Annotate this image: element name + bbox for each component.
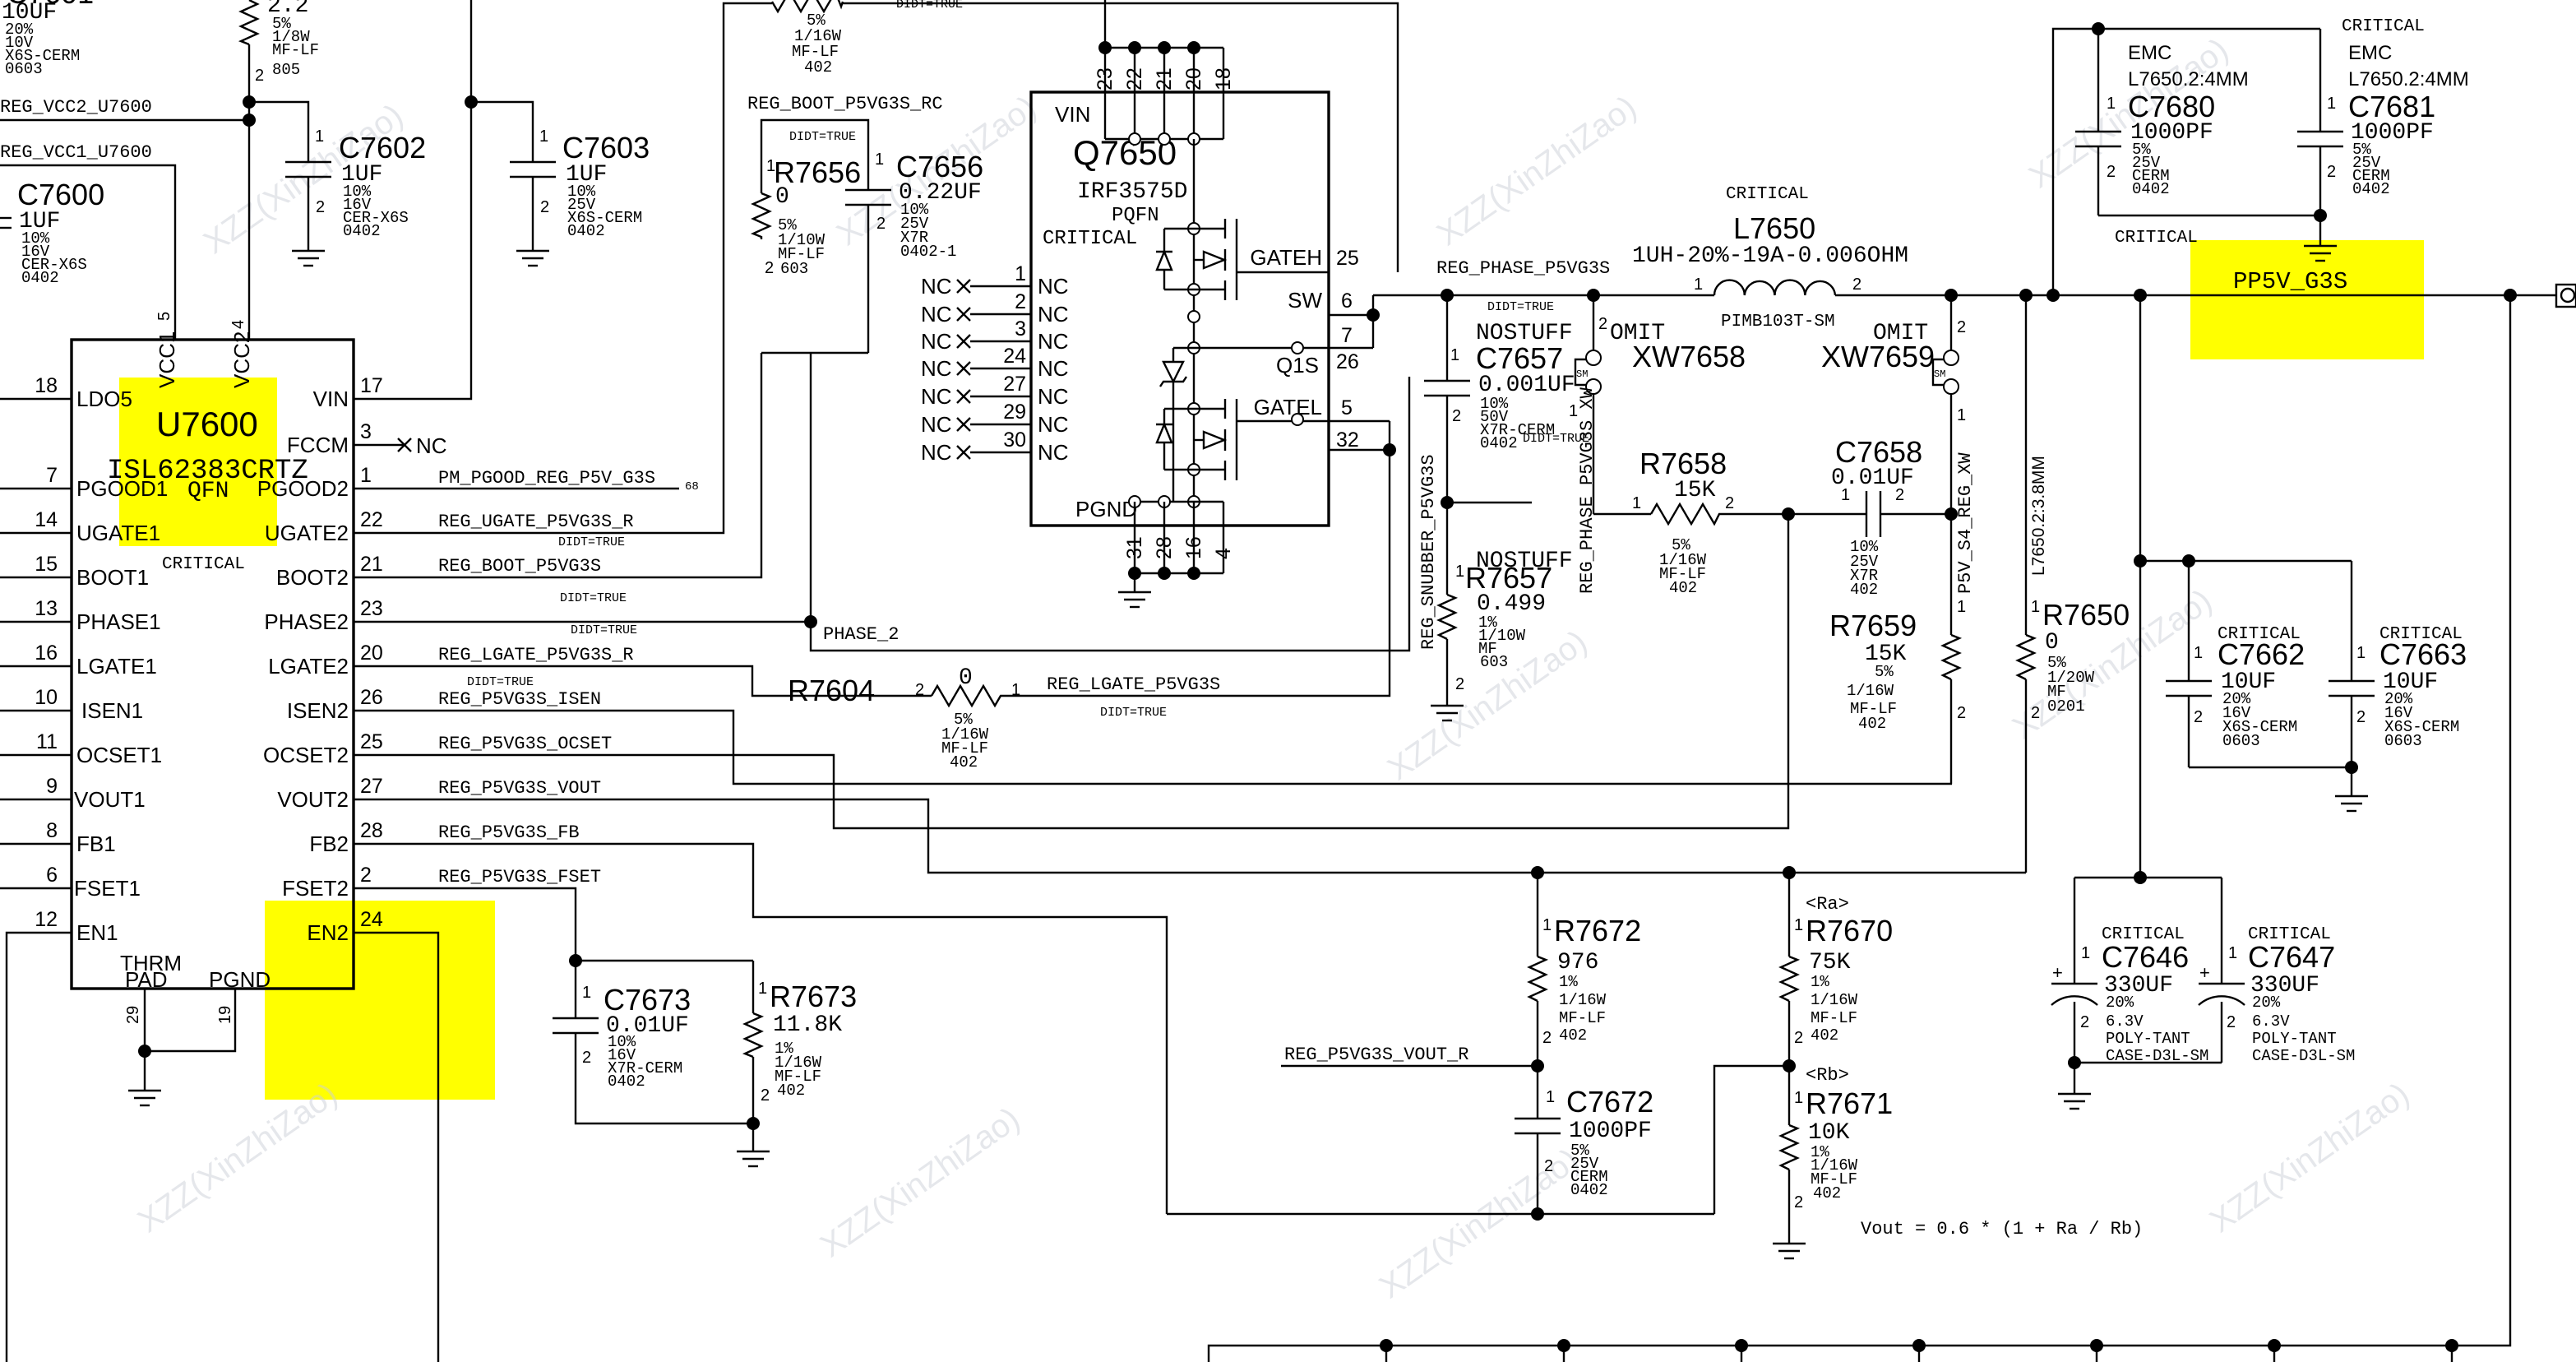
highlight yellow PP5V_G3S [2190, 240, 2424, 359]
svg-text:GATEL: GATEL [1254, 395, 1322, 419]
svg-text:0201: 0201 [2047, 697, 2085, 716]
svg-text:BOOT2: BOOT2 [276, 565, 349, 590]
svg-text:28: 28 [360, 819, 383, 842]
svg-text:603: 603 [1480, 653, 1508, 671]
svg-text:18: 18 [1212, 67, 1235, 90]
svg-text:2: 2 [1455, 675, 1464, 693]
svg-text:ISEN1: ISEN1 [81, 698, 143, 723]
svg-text:23: 23 [360, 597, 383, 620]
svg-text:402: 402 [1858, 715, 1886, 733]
svg-text:DIDT=TRUE: DIDT=TRUE [560, 591, 627, 605]
resistor R7604 [788, 665, 1020, 771]
svg-text:C7646: C7646 [2102, 940, 2189, 974]
svg-text:1: 1 [1794, 1089, 1803, 1107]
wire bottom bus rail [1209, 295, 2510, 1362]
svg-text:17: 17 [360, 374, 383, 397]
svg-text:1: 1 [1542, 916, 1552, 934]
svg-text:25: 25 [360, 730, 383, 753]
svg-text:U7600: U7600 [156, 405, 258, 443]
svg-text:REG_VCC2_U7600: REG_VCC2_U7600 [0, 97, 152, 118]
svg-text:30: 30 [1003, 429, 1026, 452]
svg-text:PGOOD2: PGOOD2 [257, 476, 349, 501]
svg-text:402: 402 [950, 753, 978, 771]
ground R7657 [1431, 706, 1464, 720]
svg-text:POLY-TANT: POLY-TANT [2106, 1030, 2190, 1048]
svg-text:0402: 0402 [1480, 434, 1518, 452]
svg-text:21: 21 [1153, 67, 1176, 90]
svg-text:0603: 0603 [2222, 732, 2260, 750]
svg-text:DIDT=TRUE: DIDT=TRUE [1100, 706, 1167, 720]
svg-text:REG_BOOT_P5VG3S_RC: REG_BOOT_P5VG3S_RC [747, 94, 943, 114]
svg-text:REG_LGATE_P5VG3S_R: REG_LGATE_P5VG3S_R [438, 645, 634, 665]
wire output caps branch [2134, 295, 2352, 878]
ground C7646 [2058, 1063, 2091, 1109]
svg-text:15: 15 [35, 553, 58, 576]
svg-text:2: 2 [1542, 1029, 1552, 1047]
svg-text:6.3V: 6.3V [2252, 1012, 2290, 1031]
capacitor C7646 (polarized) [2051, 878, 2208, 1065]
svg-text:1: 1 [1015, 262, 1026, 285]
svg-text:26: 26 [1336, 350, 1359, 373]
resistor R7673 [745, 961, 857, 1151]
svg-text:L7650.2:4MM: L7650.2:4MM [2128, 68, 2249, 90]
wire EN2 [354, 933, 438, 1362]
svg-text:1/16W: 1/16W [1559, 991, 1607, 1009]
svg-text:C7656: C7656 [896, 150, 983, 183]
svg-text:DIDT=TRUE: DIDT=TRUE [1523, 432, 1589, 446]
U7600 right pin names [257, 387, 349, 945]
svg-text:1: 1 [1957, 406, 1966, 424]
svg-text:NC: NC [921, 302, 952, 327]
ground Q7650 [1118, 592, 1151, 607]
svg-text:1000PF: 1000PF [1569, 1119, 1652, 1144]
U7600 right pin numbers [360, 374, 383, 931]
svg-text:NC: NC [1038, 302, 1069, 327]
svg-text:9: 9 [46, 775, 58, 798]
ground R7673 [737, 1151, 770, 1166]
svg-text:26: 26 [360, 686, 383, 709]
capacitor C7658 [1788, 435, 1958, 599]
svg-text:<Ra>: <Ra> [1806, 894, 1849, 915]
svg-text:13: 13 [35, 597, 58, 620]
wire FCCM NC [354, 433, 447, 458]
svg-text:1: 1 [315, 127, 324, 146]
svg-text:11: 11 [36, 730, 58, 753]
svg-text:PHASE2: PHASE2 [264, 609, 349, 634]
resistor R7671 (Rb) [1781, 1065, 1893, 1244]
net REG_UGATE_P5VG3S_R [354, 3, 772, 549]
svg-text:2: 2 [1598, 315, 1607, 333]
inductor L7650 [1632, 185, 1908, 331]
svg-text:P5V_S4_REG_XW: P5V_S4_REG_XW [1955, 452, 1976, 594]
svg-text:0402: 0402 [1570, 1181, 1608, 1199]
jumper XW7659 (OMIT) [1821, 295, 1966, 514]
wire UGATE top to GATEH [843, 3, 1398, 272]
svg-text:C7672: C7672 [1566, 1085, 1653, 1119]
svg-text:603: 603 [780, 260, 808, 278]
svg-text:20%: 20% [2252, 994, 2281, 1012]
svg-text:16: 16 [1182, 536, 1205, 559]
svg-text:1: 1 [1957, 598, 1966, 616]
wire divider bottom [1167, 1066, 1789, 1214]
svg-text:UGATE2: UGATE2 [265, 521, 349, 545]
svg-text:C7658: C7658 [1835, 435, 1922, 469]
wire Q7650 VIN top pins 23 22 21 20 18 [1094, 0, 1235, 139]
svg-text:1: 1 [1632, 494, 1641, 512]
svg-text:REG_P5VG3S_OCSET: REG_P5VG3S_OCSET [438, 734, 612, 754]
svg-text:FB2: FB2 [309, 832, 349, 856]
transistor Q7650 high-side MOSFET [1194, 219, 1329, 300]
svg-text:REG_SNUBBER_P5VG3S: REG_SNUBBER_P5VG3S [1418, 454, 1439, 650]
svg-text:NC: NC [1038, 412, 1069, 437]
U7600 left pin numbers [35, 374, 58, 931]
svg-text:2: 2 [1452, 407, 1461, 425]
svg-text:QFN: QFN [187, 479, 229, 504]
capacitor C7672 [1515, 1066, 1653, 1221]
svg-text:PGND: PGND [209, 967, 271, 992]
svg-text:2: 2 [360, 864, 372, 887]
svg-text:R7659: R7659 [1829, 609, 1917, 642]
svg-text:32: 32 [1336, 429, 1359, 452]
net REG_P5VG3S_FB [354, 822, 1167, 1214]
svg-text:27: 27 [360, 775, 383, 798]
svg-text:EN2: EN2 [307, 920, 349, 945]
svg-text:PQFN: PQFN [1112, 205, 1159, 227]
svg-text:18: 18 [35, 374, 58, 397]
diode body D1 high-side [1156, 229, 1194, 290]
svg-text:Q1S: Q1S [1276, 353, 1319, 378]
svg-text:DIDT=TRUE: DIDT=TRUE [467, 675, 534, 689]
svg-text:NC: NC [416, 433, 447, 458]
svg-text:22: 22 [1123, 67, 1146, 90]
svg-text:IRF3575D: IRF3575D [1077, 179, 1187, 205]
svg-text:R7604: R7604 [788, 674, 875, 707]
svg-text:75K: 75K [1809, 950, 1851, 975]
svg-text:DIDT=TRUE: DIDT=TRUE [571, 623, 637, 637]
resistor R7657 (NOSTUFF) [1439, 503, 1573, 706]
svg-text:402: 402 [1813, 1184, 1841, 1202]
svg-text:NC: NC [921, 274, 952, 299]
svg-text:CRITICAL: CRITICAL [2115, 229, 2198, 248]
svg-text:28: 28 [1153, 536, 1176, 559]
svg-text:GATEH: GATEH [1250, 245, 1322, 270]
ground C7662 C7663 [2335, 767, 2368, 811]
svg-text:REG_P5VG3S_FB: REG_P5VG3S_FB [438, 822, 580, 843]
ground U7600 pad [128, 1091, 161, 1105]
net REG_P5VG3S_OCSET [354, 514, 1788, 828]
capacitor C7647 (polarized) [2068, 878, 2355, 1069]
svg-text:19: 19 [216, 1006, 234, 1024]
svg-text:SM: SM [1576, 368, 1588, 380]
svg-text:C7602: C7602 [339, 131, 426, 164]
svg-text:R7658: R7658 [1639, 447, 1727, 480]
net REG_P5VG3S_VOUT_R [1281, 1045, 1544, 1072]
svg-text:2: 2 [582, 1049, 591, 1067]
svg-text:+: + [2199, 962, 2210, 983]
svg-text:CASE-D3L-SM: CASE-D3L-SM [2252, 1047, 2355, 1065]
U7600 bottom pads THRM PAD / PGND [120, 951, 271, 1024]
svg-text:68: 68 [685, 480, 699, 493]
ground R7671 [1773, 1244, 1806, 1258]
svg-text:2: 2 [1852, 276, 1861, 294]
svg-text:2: 2 [540, 198, 549, 216]
svg-text:NC: NC [1038, 274, 1069, 299]
svg-text:DIDT=TRUE: DIDT=TRUE [789, 130, 856, 144]
svg-text:20: 20 [360, 642, 383, 665]
svg-text:FSET1: FSET1 [74, 876, 141, 901]
svg-text:1/16W: 1/16W [1847, 682, 1894, 700]
svg-text:NC: NC [1038, 384, 1069, 409]
svg-text:OCSET1: OCSET1 [76, 743, 162, 767]
svg-text:0: 0 [775, 184, 789, 210]
svg-text:0402: 0402 [21, 269, 59, 287]
svg-text:REG_UGATE_P5VG3S_R: REG_UGATE_P5VG3S_R [438, 512, 634, 532]
svg-text:C7663: C7663 [2379, 637, 2467, 671]
svg-text:7: 7 [46, 464, 58, 487]
svg-text:1%: 1% [1811, 973, 1829, 991]
svg-text:2: 2 [876, 215, 886, 233]
svg-text:2: 2 [2194, 708, 2203, 726]
svg-text:EMC: EMC [2348, 42, 2392, 64]
svg-text:8: 8 [46, 819, 58, 842]
net PM_PGOOD_REG_P5V_G3S [354, 468, 699, 493]
svg-text:R7670: R7670 [1806, 914, 1893, 947]
svg-text:6: 6 [46, 864, 58, 887]
svg-text:31: 31 [1123, 536, 1146, 559]
svg-text:10K: 10K [1808, 1120, 1850, 1146]
svg-text:C7673: C7673 [604, 983, 691, 1017]
net REG_P5VG3S_VOUT [354, 778, 2026, 873]
svg-text:R7671: R7671 [1806, 1086, 1893, 1120]
U7600 top pin VCC1 (5) [155, 312, 179, 388]
net REG_PHASE_P5VG3S main line [1373, 258, 2556, 314]
diode zener clamp [1160, 348, 1186, 502]
svg-text:CRITICAL: CRITICAL [162, 555, 245, 574]
svg-text:2: 2 [1957, 318, 1966, 336]
capacitor C7600 (partial, left edge) [0, 178, 104, 287]
wire Q7650 pin7 internal [1173, 342, 1329, 354]
svg-text:MF-LF: MF-LF [1559, 1009, 1606, 1027]
svg-text:NC: NC [921, 356, 952, 381]
svg-text:CRITICAL: CRITICAL [2342, 17, 2425, 36]
svg-text:1: 1 [2107, 95, 2116, 113]
wire bulk caps branch [2074, 871, 2222, 884]
svg-text:FCCM: FCCM [287, 433, 349, 457]
U7600 left pin names [74, 387, 168, 945]
svg-text:C7603: C7603 [562, 131, 650, 164]
diode body D2 low-side [1156, 409, 1194, 470]
svg-text:0402: 0402 [2132, 180, 2170, 198]
resistor R7659 [1829, 514, 1966, 784]
capacitor C7681 [2098, 17, 2469, 222]
svg-text:NC: NC [921, 384, 952, 409]
svg-text:23: 23 [1094, 67, 1117, 90]
svg-text:2: 2 [255, 67, 264, 85]
svg-text:1: 1 [2081, 944, 2090, 962]
svg-text:REG_VCC1_U7600: REG_VCC1_U7600 [0, 142, 152, 163]
svg-text:PM_PGOOD_REG_P5V_G3S: PM_PGOOD_REG_P5V_G3S [438, 468, 655, 489]
svg-text:SW: SW [1288, 288, 1322, 313]
svg-text:5: 5 [1341, 396, 1353, 419]
svg-text:2: 2 [2356, 708, 2366, 726]
svg-text:25: 25 [1336, 247, 1359, 270]
svg-text:FB1: FB1 [76, 832, 116, 856]
capacitor C7602 [249, 102, 426, 251]
resistor R7650 [2018, 295, 2130, 873]
wire Q7650 internal switch chain [1188, 139, 1200, 507]
svg-text:14: 14 [35, 508, 58, 531]
svg-text:2: 2 [761, 1086, 770, 1105]
svg-text:<Rb>: <Rb> [1806, 1065, 1849, 1086]
node REG_VCC1_U7600 [0, 142, 175, 340]
svg-text:0603: 0603 [5, 60, 43, 78]
svg-text:0402: 0402 [608, 1072, 645, 1091]
node REG_VCC2_U7600 [0, 95, 256, 340]
jumper XW7658 (OMIT) [1569, 295, 1746, 514]
svg-text:402: 402 [1669, 579, 1697, 597]
capacitor C7657 (NOSTUFF) [1424, 295, 1575, 509]
svg-text:NC: NC [921, 412, 952, 437]
capacitor C7603 [465, 95, 650, 251]
svg-text:22: 22 [360, 508, 383, 531]
svg-text:7: 7 [1341, 324, 1353, 347]
svg-text:R7650: R7650 [2042, 598, 2130, 632]
svg-text:UGATE1: UGATE1 [76, 521, 160, 545]
svg-text:1: 1 [1450, 346, 1459, 364]
port output PP5V_G3S [2556, 285, 2576, 307]
svg-text:15K: 15K [1674, 478, 1716, 503]
net REG_LGATE_P5VG3S [1006, 421, 1396, 720]
svg-text:402: 402 [1850, 581, 1878, 599]
resistor R7602 2.2 (partial, top edge) [241, 0, 319, 102]
ground EMC caps [2115, 215, 2337, 261]
Q7650 right pin labels [1250, 245, 1358, 452]
svg-text:0603: 0603 [2384, 732, 2422, 750]
net REG_P5VG3S_ISEN [354, 675, 1952, 784]
wire EMC cap branch [2053, 22, 2320, 295]
ground C7603 [516, 251, 549, 266]
svg-text:1: 1 [2356, 644, 2366, 662]
svg-text:24: 24 [1003, 345, 1026, 368]
svg-text:2: 2 [765, 259, 774, 277]
capacitor C7601 (partial, top edge) [2, 0, 94, 78]
svg-text:VOUT1: VOUT1 [74, 787, 146, 812]
net REG_P5VG3S_FSET [354, 867, 753, 967]
capacitor C7673 [553, 961, 753, 1123]
svg-text:REG_P5VG3S_VOUT: REG_P5VG3S_VOUT [438, 778, 601, 799]
svg-text:1: 1 [2327, 95, 2336, 113]
svg-text:5%: 5% [1875, 663, 1894, 681]
net REG_LGATE_P5VG3S_R [354, 623, 932, 696]
svg-text:4: 4 [229, 320, 247, 329]
resistor R7670 (Ra) [1781, 866, 1893, 1072]
svg-text:2: 2 [2107, 163, 2116, 181]
net REG_BOOT_P5VG3S [354, 353, 761, 577]
svg-text:976: 976 [1557, 950, 1598, 975]
svg-text:1: 1 [1694, 276, 1703, 294]
svg-text:27: 27 [1003, 373, 1026, 396]
highlight yellow EN2 [265, 901, 495, 1100]
svg-text:0: 0 [959, 665, 973, 691]
svg-text:VCC1: VCC1 [155, 331, 179, 388]
svg-text:16: 16 [35, 642, 58, 665]
svg-text:CRITICAL: CRITICAL [1726, 185, 1809, 204]
svg-text:2: 2 [1895, 486, 1904, 504]
svg-text:PHASE1: PHASE1 [76, 609, 161, 634]
svg-text:29: 29 [1003, 401, 1026, 424]
svg-text:0402-1: 0402-1 [900, 243, 956, 261]
svg-text:VIN: VIN [1055, 102, 1090, 127]
svg-text:402: 402 [804, 58, 832, 76]
svg-text:2: 2 [316, 198, 325, 216]
svg-text:402: 402 [1811, 1026, 1838, 1045]
resistor R7658 [1523, 432, 1795, 597]
svg-text:C7662: C7662 [2218, 637, 2305, 671]
svg-text:1: 1 [875, 151, 884, 169]
wire GATEL pin5 pin32 [1329, 421, 1390, 450]
svg-text:REG_P5VG3S_VOUT_R: REG_P5VG3S_VOUT_R [1284, 1045, 1468, 1065]
svg-text:SM: SM [1934, 368, 1945, 380]
capacitor C7656 [845, 150, 983, 353]
svg-text:+: + [2052, 962, 2063, 983]
svg-text:1: 1 [2194, 644, 2203, 662]
wire Q7650 GATEL internal circle [1292, 414, 1303, 425]
svg-text:EN1: EN1 [76, 920, 118, 945]
svg-text:C7657: C7657 [1476, 341, 1563, 375]
svg-text:NC: NC [921, 329, 952, 354]
svg-text:4: 4 [1212, 548, 1235, 559]
svg-text:20%: 20% [2106, 994, 2134, 1012]
svg-text:LGATE1: LGATE1 [76, 654, 157, 679]
wire VIN vertical [354, 0, 471, 399]
svg-text:2: 2 [1794, 1193, 1803, 1211]
svg-text:2: 2 [2327, 163, 2336, 181]
svg-text:2: 2 [1794, 1029, 1803, 1047]
svg-text:21: 21 [360, 553, 383, 576]
wire SW pin6 pin7 to phase [1329, 295, 1380, 348]
svg-text:1: 1 [1794, 916, 1803, 934]
svg-text:C7680: C7680 [2128, 90, 2215, 123]
transistor Q7650 low-side MOSFET [1194, 399, 1329, 480]
svg-text:XW7659: XW7659 [1821, 340, 1935, 373]
svg-text:MF-LF: MF-LF [272, 41, 319, 59]
svg-text:PGND: PGND [1075, 497, 1137, 521]
capacitor C7662 [2166, 561, 2305, 767]
svg-text:0: 0 [2045, 630, 2059, 656]
ground C7602 [292, 251, 325, 266]
svg-text:1: 1 [2228, 944, 2237, 962]
svg-text:1: 1 [539, 127, 548, 146]
svg-text:6: 6 [1341, 290, 1353, 313]
resistor R7672 [1529, 866, 1641, 1066]
svg-text:24: 24 [360, 908, 383, 931]
svg-text:C7681: C7681 [2348, 90, 2435, 123]
svg-text:3: 3 [1015, 317, 1026, 340]
svg-text:DIDT=TRUE: DIDT=TRUE [558, 535, 625, 549]
svg-text:REG_PHASE_P5VG3S_XW: REG_PHASE_P5VG3S_XW [1577, 387, 1598, 594]
svg-text:CRITICAL: CRITICAL [1043, 228, 1137, 250]
svg-text:REG_P5VG3S_ISEN: REG_P5VG3S_ISEN [438, 689, 601, 710]
svg-text:1: 1 [360, 464, 372, 487]
svg-text:PIMB103T-SM: PIMB103T-SM [1721, 313, 1835, 331]
svg-text:1/16W: 1/16W [1811, 991, 1858, 1009]
svg-text:PGOOD1: PGOOD1 [76, 476, 168, 501]
svg-text:NC: NC [1038, 356, 1069, 381]
svg-text:402: 402 [777, 1082, 805, 1100]
svg-text:VOUT2: VOUT2 [277, 787, 349, 812]
svg-text:12: 12 [35, 908, 58, 931]
svg-text:OCSET2: OCSET2 [263, 743, 349, 767]
